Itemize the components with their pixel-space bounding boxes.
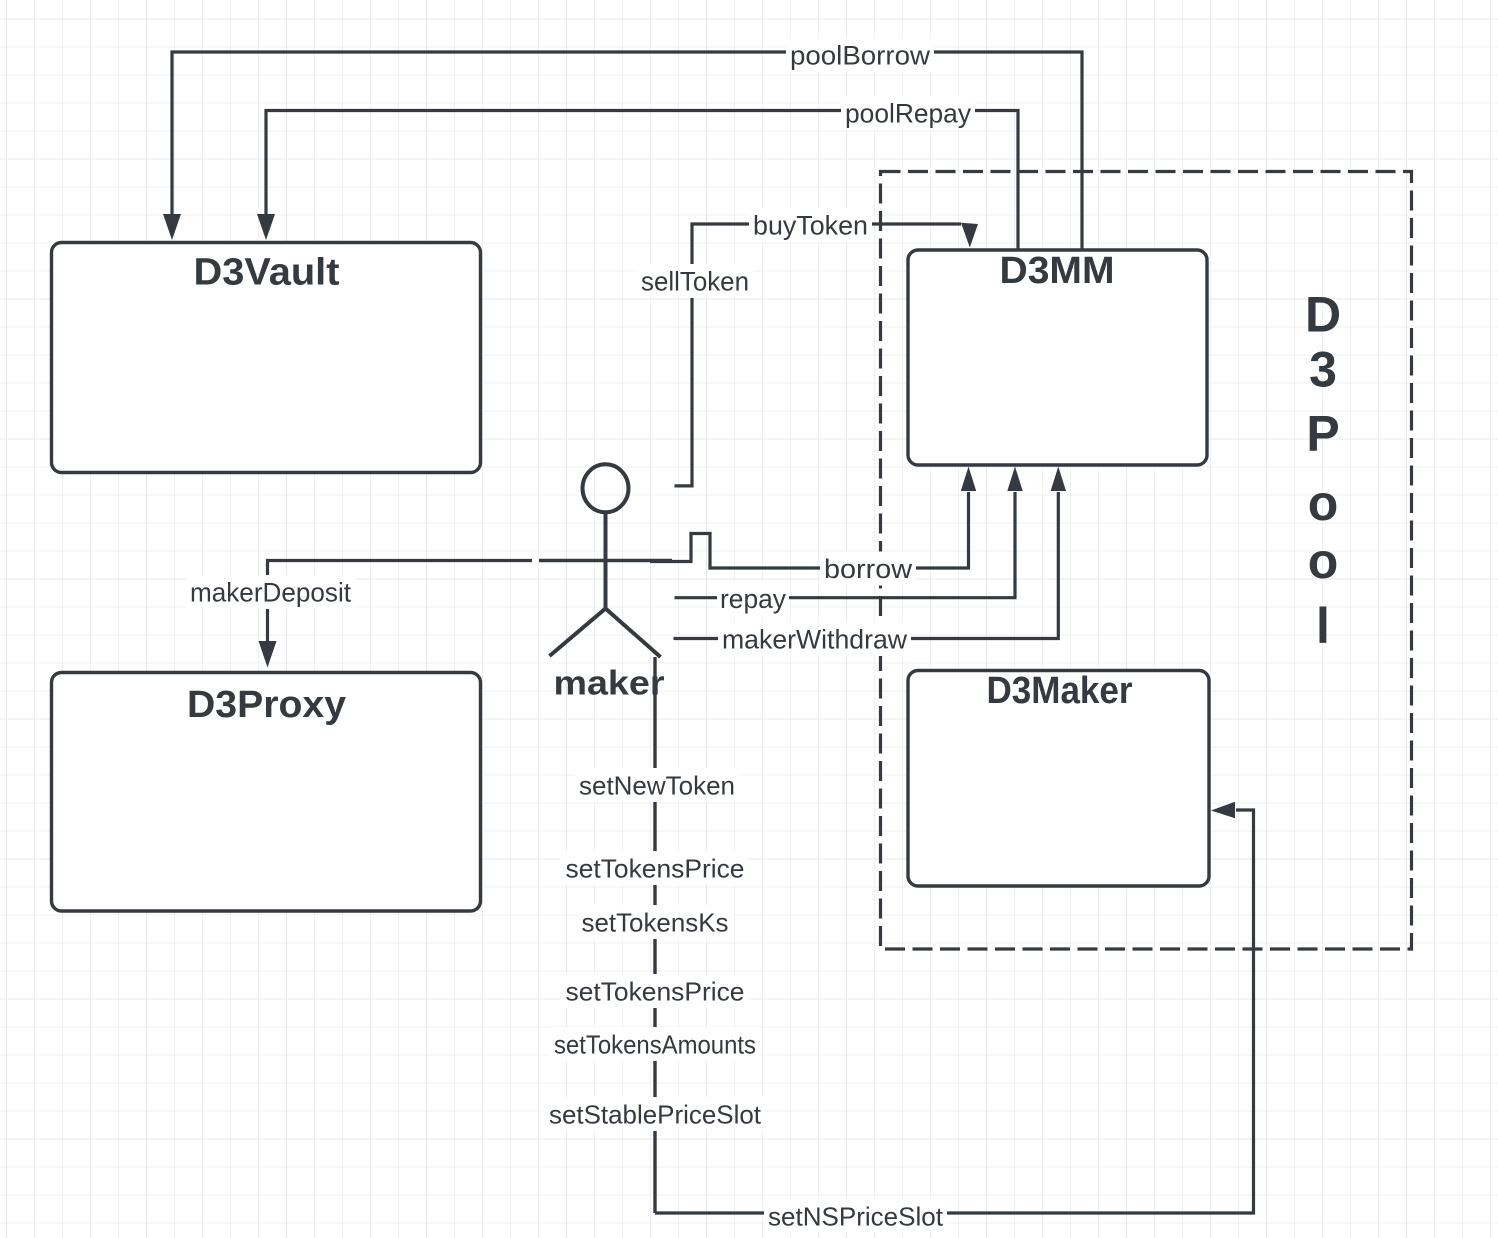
label poolBorrow bbox=[786, 38, 934, 72]
box D3MM bbox=[908, 250, 1207, 465]
svg-text:repay: repay bbox=[720, 584, 786, 614]
svg-text:l: l bbox=[1316, 598, 1330, 654]
svg-text:D3Vault: D3Vault bbox=[194, 252, 340, 294]
svg-text:setStablePriceSlot: setStablePriceSlot bbox=[549, 1100, 762, 1130]
label setTokensPrice 1 bbox=[561, 851, 748, 885]
svg-text:buyToken: buyToken bbox=[753, 211, 868, 241]
wire makerDeposit (maker to D3Proxy) bbox=[268, 561, 533, 643]
wire setNSPriceSlot (maker to D3Maker) bbox=[655, 810, 1254, 1213]
svg-text:poolRepay: poolRepay bbox=[845, 99, 971, 129]
wire sellToken / buyToken (maker to D3MM) bbox=[675, 224, 962, 486]
svg-text:borrow: borrow bbox=[824, 554, 913, 584]
lifeline maker vertical bbox=[653, 657, 656, 1213]
box D3Vault bbox=[52, 243, 481, 473]
label buyToken bbox=[749, 208, 872, 242]
svg-text:D: D bbox=[1305, 287, 1341, 343]
wire makerWithdraw (maker to D3MM bottom) bbox=[674, 492, 1059, 639]
wire poolRepay (D3MM to D3Vault) bbox=[266, 111, 1018, 251]
svg-text:poolBorrow: poolBorrow bbox=[790, 41, 931, 71]
wire borrow (maker to D3MM bottom) bbox=[650, 492, 969, 568]
svg-text:setNewToken: setNewToken bbox=[579, 771, 735, 801]
label poolRepay bbox=[841, 96, 975, 130]
svg-text:maker: maker bbox=[554, 665, 665, 703]
label makerDeposit bbox=[186, 575, 355, 609]
svg-text:o: o bbox=[1308, 475, 1339, 531]
svg-text:setTokensKs: setTokensKs bbox=[582, 908, 729, 938]
svg-text:makerWithdraw: makerWithdraw bbox=[722, 625, 907, 655]
svg-text:setNSPriceSlot: setNSPriceSlot bbox=[768, 1202, 944, 1232]
wire repay (maker to D3MM bottom) bbox=[675, 492, 1016, 598]
svg-text:D3Proxy: D3Proxy bbox=[187, 684, 346, 726]
svg-text:setTokensPrice: setTokensPrice bbox=[566, 977, 745, 1007]
box D3Proxy bbox=[52, 673, 481, 912]
label setTokensPrice 2 bbox=[561, 974, 748, 1008]
label setTokensAmounts bbox=[550, 1027, 760, 1061]
svg-text:setTokensAmounts: setTokensAmounts bbox=[554, 1030, 756, 1060]
label setTokensKs bbox=[578, 905, 733, 939]
svg-text:o: o bbox=[1308, 533, 1339, 589]
label makerWithdraw bbox=[718, 622, 911, 656]
actor maker arms segment bbox=[539, 559, 672, 562]
svg-text:makerDeposit: makerDeposit bbox=[190, 578, 351, 608]
label D3Pool vertical text bbox=[1305, 287, 1341, 655]
svg-text:P: P bbox=[1306, 406, 1339, 462]
label repay bbox=[717, 582, 789, 616]
label setNSPriceSlot bbox=[764, 1199, 947, 1233]
label sellToken bbox=[637, 264, 753, 298]
label setStablePriceSlot bbox=[545, 1097, 765, 1131]
label setNewToken bbox=[575, 768, 739, 802]
svg-text:D3MM: D3MM bbox=[1000, 250, 1115, 292]
label borrow bbox=[820, 552, 916, 586]
actor maker (stick figure) bbox=[550, 464, 661, 657]
wire poolBorrow (D3MM to D3Vault) bbox=[172, 52, 1082, 250]
svg-text:sellToken: sellToken bbox=[641, 267, 749, 297]
svg-text:3: 3 bbox=[1309, 342, 1337, 398]
svg-text:setTokensPrice: setTokensPrice bbox=[566, 854, 745, 884]
box D3Maker bbox=[908, 670, 1209, 886]
container D3Pool (dashed box) bbox=[881, 172, 1412, 950]
svg-text:D3Maker: D3Maker bbox=[987, 670, 1133, 712]
